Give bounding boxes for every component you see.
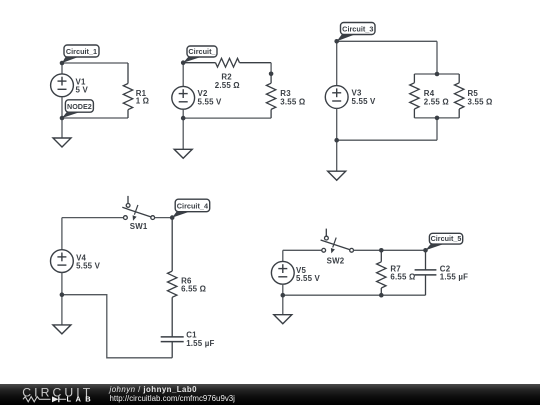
svg-text:johnyn / johnyn_Lab0: johnyn / johnyn_Lab0 bbox=[109, 385, 198, 394]
svg-text:5.55 V: 5.55 V bbox=[76, 262, 101, 271]
svg-text:Circuit_: Circuit_ bbox=[188, 47, 216, 56]
svg-text:3.55 Ω: 3.55 Ω bbox=[280, 97, 305, 106]
svg-text:5.55 V: 5.55 V bbox=[296, 274, 321, 283]
svg-text:5.55 V: 5.55 V bbox=[352, 97, 377, 106]
svg-text:6.55 Ω: 6.55 Ω bbox=[181, 284, 206, 293]
svg-text:http://circuitlab.com/cmfmc976: http://circuitlab.com/cmfmc976u9v3j bbox=[110, 394, 236, 403]
svg-text:NODE2: NODE2 bbox=[67, 102, 92, 111]
svg-text:1.55 µF: 1.55 µF bbox=[440, 273, 468, 282]
svg-text:3.55 Ω: 3.55 Ω bbox=[468, 97, 493, 106]
svg-text:LAB: LAB bbox=[67, 395, 96, 404]
svg-text:2.55 Ω: 2.55 Ω bbox=[424, 97, 449, 106]
svg-text:SW2: SW2 bbox=[327, 257, 345, 266]
svg-text:6.55 Ω: 6.55 Ω bbox=[390, 273, 415, 282]
svg-text:5.55 V: 5.55 V bbox=[198, 97, 223, 106]
svg-text:2.55 Ω: 2.55 Ω bbox=[215, 81, 240, 90]
svg-text:SW1: SW1 bbox=[130, 222, 148, 231]
svg-text:1 Ω: 1 Ω bbox=[136, 97, 150, 106]
svg-text:Circuit_3: Circuit_3 bbox=[342, 24, 373, 33]
svg-text:Circuit_1: Circuit_1 bbox=[66, 47, 97, 56]
svg-text:Circuit_4: Circuit_4 bbox=[177, 202, 209, 211]
svg-text:5 V: 5 V bbox=[76, 85, 89, 94]
svg-text:Circuit_5: Circuit_5 bbox=[431, 234, 462, 243]
svg-text:1.55 µF: 1.55 µF bbox=[186, 339, 214, 348]
